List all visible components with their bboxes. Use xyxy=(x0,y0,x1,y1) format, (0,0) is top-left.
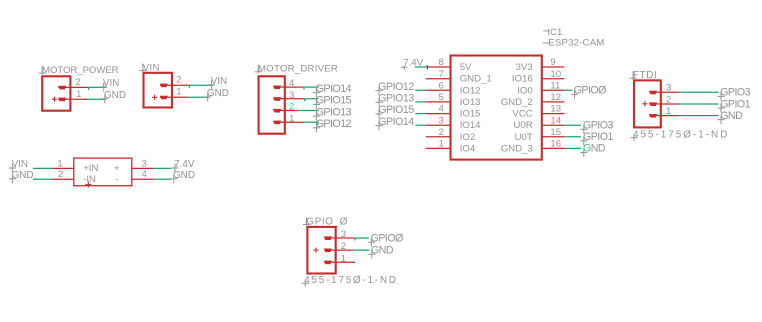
svg-text:1: 1 xyxy=(666,106,671,117)
wire net GND from U2-4 xyxy=(154,178,171,180)
svg-text:15: 15 xyxy=(550,127,561,138)
svg-text:GPIO13: GPIO13 xyxy=(316,106,352,118)
wire net 7.4V from U2-3 xyxy=(154,167,171,169)
svg-text:3: 3 xyxy=(341,229,346,240)
pin J3-3 pad xyxy=(273,97,281,99)
net label 7.4V at U2-3 xyxy=(174,164,176,173)
pin IC1-5 lead xyxy=(426,101,451,103)
svg-text:IO14: IO14 xyxy=(460,120,481,131)
svg-text:MOTOR_POWER: MOTOR_POWER xyxy=(42,65,119,76)
pin J1-2 pad xyxy=(58,86,66,88)
net label VIN at J1-2 xyxy=(103,83,105,92)
svg-text:2: 2 xyxy=(289,102,294,113)
IC1 ESP32-CAM body xyxy=(451,56,542,160)
pin IC1-15 lead xyxy=(542,136,565,138)
net label GPIO13 at J3-2 xyxy=(315,112,317,121)
wire net 7.4V to IC1-8 xyxy=(415,66,428,68)
svg-text:+: + xyxy=(114,163,120,174)
pin J3-4 pad xyxy=(273,86,281,88)
wire net GPIO13 to IC1 xyxy=(415,101,426,103)
svg-text:GND: GND xyxy=(583,143,606,155)
connector J4 value 455-1750-1-ND xyxy=(633,134,635,141)
svg-text:2: 2 xyxy=(341,241,346,252)
svg-text:7: 7 xyxy=(439,69,444,80)
wire net GND to U2 -IN xyxy=(33,178,51,180)
svg-text:455-175Ø-1-ND: 455-175Ø-1-ND xyxy=(304,275,398,286)
pin J3-2 lead xyxy=(281,110,297,112)
pin U2-3 lead xyxy=(132,167,154,169)
pin U2-1 lead xyxy=(51,167,73,169)
net label GPIO14 at J3-4 xyxy=(315,88,317,97)
pin IC1-14 lead xyxy=(542,124,565,126)
svg-text:VIN: VIN xyxy=(12,159,28,170)
net label 7.4V at IC1-8 xyxy=(403,66,405,70)
connector J4 plus mark xyxy=(642,103,647,105)
wire net GND from J1-1 xyxy=(88,98,106,100)
pin J2-2 pad xyxy=(160,84,168,86)
svg-text:8: 8 xyxy=(439,57,444,68)
net label GND at J5-2 xyxy=(371,250,373,259)
svg-text:GPIO1: GPIO1 xyxy=(583,131,613,143)
svg-text:1: 1 xyxy=(289,113,294,124)
svg-text:GPIO3: GPIO3 xyxy=(583,120,613,132)
svg-text:3: 3 xyxy=(289,90,294,101)
svg-text:1: 1 xyxy=(57,158,62,169)
pin U2-2 lead xyxy=(51,178,73,180)
svg-text:ESP32-CAM: ESP32-CAM xyxy=(548,38,604,49)
connector J5 value 455-1750-1-ND xyxy=(304,280,306,287)
svg-text:IO12: IO12 xyxy=(460,85,481,96)
connector J3 MOTOR_DRIVER name label xyxy=(257,65,259,73)
net label GPIO1 at J4-2 xyxy=(720,104,722,113)
pin J5-2 pad xyxy=(324,249,332,251)
svg-text:FTDI: FTDI xyxy=(633,70,657,81)
svg-text:3: 3 xyxy=(142,158,147,169)
pin J1-2 lead xyxy=(66,86,88,88)
wire net GPIO0 from IC1 xyxy=(564,89,572,91)
pin J4-2 lead xyxy=(657,103,679,105)
svg-text:GPIO14: GPIO14 xyxy=(378,116,414,128)
net label GND at U2 -IN xyxy=(11,174,13,183)
svg-text:GND: GND xyxy=(371,244,394,256)
svg-text:IO15: IO15 xyxy=(460,109,481,120)
pin J4-1 pad xyxy=(649,114,657,116)
wire net GPIO15 from J3-3 xyxy=(304,98,319,100)
svg-text:GPIO14: GPIO14 xyxy=(316,83,352,95)
svg-text:GND_3: GND_3 xyxy=(501,143,533,154)
svg-text:455-175Ø-1-ND: 455-175Ø-1-ND xyxy=(633,130,729,141)
svg-text:IO2: IO2 xyxy=(460,132,475,143)
net label GPIO12 at J3-1 xyxy=(315,123,317,132)
connector J2 plus mark xyxy=(152,96,157,98)
wire net GPIO3 from J4-3 xyxy=(679,91,719,93)
svg-text:GPIO13: GPIO13 xyxy=(378,93,414,105)
svg-text:-: - xyxy=(115,174,118,185)
svg-text:13: 13 xyxy=(550,104,561,115)
pin IC1-10 lead xyxy=(542,78,565,80)
svg-text:VIN: VIN xyxy=(103,78,119,89)
net label GND at U2-4 xyxy=(173,174,175,183)
svg-text:U0T: U0T xyxy=(515,132,533,143)
svg-text:3: 3 xyxy=(439,115,444,126)
svg-text:GPIOØ: GPIOØ xyxy=(574,85,606,97)
svg-text:4: 4 xyxy=(142,169,148,180)
pin J4-3 pad xyxy=(649,91,657,93)
net label GPIO12 at IC1 left xyxy=(378,86,380,95)
connector J4 FTDI body xyxy=(634,80,661,127)
svg-text:IO0: IO0 xyxy=(517,85,532,96)
net label VIN at U2 +IN xyxy=(11,164,13,173)
wire net GPIO1 from IC1 xyxy=(564,136,581,138)
connector J5 plus mark xyxy=(313,249,318,251)
svg-text:1: 1 xyxy=(439,139,444,150)
connector J2 VIN name label xyxy=(142,64,144,72)
svg-text:2: 2 xyxy=(58,169,63,180)
IC1 value ESP32-CAM label xyxy=(543,42,550,44)
pin IC1-9 lead xyxy=(542,66,565,68)
net label GND at J4-1 xyxy=(720,115,722,124)
net label GPIO1 at IC1 right xyxy=(583,136,585,145)
svg-text:GPIOØ: GPIOØ xyxy=(371,232,403,244)
net label GPIO15 at J3-3 xyxy=(315,100,317,109)
wire net GND from J5-2 xyxy=(354,249,370,251)
net label GPIO0 at J5-3 xyxy=(370,238,372,247)
pin J3-4 lead xyxy=(281,86,303,88)
pin J4-2 pad xyxy=(649,102,657,104)
net label GND at J2-1 xyxy=(207,92,209,101)
net label GPIO13 at IC1 left xyxy=(378,98,380,107)
net label GPIO15 at IC1 left xyxy=(378,110,380,119)
svg-text:1: 1 xyxy=(341,253,346,264)
pin U2-4 lead xyxy=(132,178,154,180)
wire net VIN from J1-2 xyxy=(88,86,107,88)
svg-text:GPIO12: GPIO12 xyxy=(316,118,352,130)
svg-text:-IN: -IN xyxy=(83,174,96,185)
pin J5-3 pad xyxy=(324,236,332,238)
wire net GPIO1 from J4-2 xyxy=(679,103,719,105)
net label GPIO14 at IC1 left xyxy=(378,121,380,130)
svg-text:GPIO15: GPIO15 xyxy=(378,104,414,116)
svg-text:1: 1 xyxy=(76,89,81,100)
connector J4 FTDI name label xyxy=(632,71,634,79)
svg-text:7.4V: 7.4V xyxy=(174,159,195,170)
net label GND at IC1 right xyxy=(583,148,585,157)
svg-text:GND_1: GND_1 xyxy=(460,74,492,85)
pin IC1-12 lead xyxy=(542,101,565,103)
wire net GPIO14 from J3-4 xyxy=(303,86,318,88)
wire net GND from IC1 xyxy=(564,147,581,149)
wire net GPIO3 from IC1 xyxy=(564,124,581,126)
wire net GPIO12 from J3-1 xyxy=(303,121,319,123)
wire net VIN to U2 +IN xyxy=(33,167,51,169)
svg-text:16: 16 xyxy=(550,139,561,150)
pin J5-1 lead (unconnected) xyxy=(332,261,355,263)
wire net VIN from J2-2 xyxy=(189,84,214,86)
wire net GND from J4-1 xyxy=(679,115,719,117)
svg-text:12: 12 xyxy=(550,92,561,103)
pin J5-3 lead xyxy=(332,237,354,239)
net label GPIO3 at J4-3 xyxy=(720,92,722,101)
pin J1-1 pad xyxy=(58,98,66,100)
connector J1 plus mark xyxy=(52,98,57,100)
svg-text:GND: GND xyxy=(104,90,126,101)
svg-text:10: 10 xyxy=(550,69,561,80)
regulator U2 origin cross xyxy=(85,183,91,185)
pin J4-1 lead xyxy=(657,115,679,117)
pin IC1-7 lead xyxy=(426,78,451,80)
svg-text:GPIO1: GPIO1 xyxy=(720,98,750,110)
svg-text:5: 5 xyxy=(439,92,444,103)
svg-text:VCC: VCC xyxy=(512,109,532,120)
connector J1 MOTOR_POWER name label xyxy=(41,66,43,74)
svg-text:+IN: +IN xyxy=(83,163,98,174)
pin IC1-16 lead xyxy=(542,147,565,149)
pin IC1-8 lead xyxy=(426,66,451,68)
pin J5-1 pad xyxy=(324,261,332,263)
svg-text:IO13: IO13 xyxy=(460,97,481,108)
pin J3-1 lead xyxy=(281,121,303,123)
IC1 reference label xyxy=(543,30,549,32)
svg-text:14: 14 xyxy=(550,115,561,126)
svg-text:GND: GND xyxy=(12,170,34,181)
connector J2 VIN body xyxy=(144,73,173,108)
svg-text:1: 1 xyxy=(176,87,181,98)
svg-text:VIN: VIN xyxy=(211,76,227,87)
svg-text:2: 2 xyxy=(439,127,444,138)
svg-text:GPIO15: GPIO15 xyxy=(316,95,352,107)
svg-text:2: 2 xyxy=(176,75,181,86)
svg-text:GND: GND xyxy=(173,170,195,181)
wire net GPIO14 to IC1 xyxy=(415,124,426,126)
svg-text:IC1: IC1 xyxy=(547,27,562,38)
net label GPIO0 at IC1 right xyxy=(574,90,576,99)
connector J5 GPIO_0 body xyxy=(307,227,335,274)
pin J5-2 lead xyxy=(332,249,354,251)
svg-text:2: 2 xyxy=(666,94,671,105)
wire net GND from J2-1 xyxy=(189,96,209,98)
pin J1-1 lead xyxy=(66,98,88,100)
connector J3 MOTOR_DRIVER body xyxy=(259,76,285,133)
pin IC1-2 lead xyxy=(426,136,451,138)
svg-text:GPIO_Ø: GPIO_Ø xyxy=(306,216,348,227)
svg-text:11: 11 xyxy=(550,80,560,91)
svg-text:GND: GND xyxy=(207,88,229,99)
svg-text:3: 3 xyxy=(666,83,671,94)
pin J4-3 lead xyxy=(657,91,679,93)
wire net GPIO12 to IC1 xyxy=(415,89,426,91)
svg-text:GND: GND xyxy=(720,110,743,122)
svg-text:GND_2: GND_2 xyxy=(501,97,533,108)
connector J1 MOTOR_POWER body xyxy=(42,76,70,110)
wire net GPIO15 to IC1 xyxy=(415,113,426,115)
pin J3-1 pad xyxy=(273,121,281,123)
svg-text:GPIO3: GPIO3 xyxy=(720,87,750,99)
svg-text:3V3: 3V3 xyxy=(516,62,533,73)
pin J2-2 lead xyxy=(168,84,189,86)
svg-text:U0R: U0R xyxy=(513,120,532,131)
svg-text:4: 4 xyxy=(289,78,295,89)
regulator U2 body xyxy=(74,158,132,186)
svg-text:6: 6 xyxy=(439,80,444,91)
svg-text:IO16: IO16 xyxy=(512,74,533,85)
net label GND at J1-1 xyxy=(104,94,106,103)
wire net GPIO13 from J3-2 xyxy=(297,110,318,112)
svg-text:5V: 5V xyxy=(460,62,472,73)
svg-text:VIN: VIN xyxy=(143,62,160,73)
net label GPIO3 at IC1 right xyxy=(583,125,585,134)
connector J5 GPIO_0 name label xyxy=(306,218,308,226)
pin J3-3 lead xyxy=(281,98,304,100)
wire net GPIO0 from J5-3 xyxy=(354,237,369,239)
svg-text:IO4: IO4 xyxy=(460,143,476,154)
svg-text:MOTOR_DRIVER: MOTOR_DRIVER xyxy=(258,64,338,75)
pin IC1-3 lead xyxy=(426,124,451,126)
pin IC1-13 lead xyxy=(542,113,565,115)
svg-text:4: 4 xyxy=(439,104,445,115)
pin IC1-1 lead xyxy=(426,147,451,149)
svg-text:2: 2 xyxy=(75,77,80,88)
svg-text:GPIO12: GPIO12 xyxy=(378,81,414,93)
pin J2-1 lead xyxy=(168,96,189,98)
pin J2-1 pad xyxy=(160,96,168,98)
pin IC1-6 lead xyxy=(426,89,451,91)
svg-text:9: 9 xyxy=(550,57,555,68)
pin IC1-4 lead xyxy=(426,113,451,115)
pin IC1-11 lead xyxy=(542,89,565,91)
pin J3-2 pad xyxy=(273,109,281,111)
net label VIN at J2-2 xyxy=(211,80,213,89)
